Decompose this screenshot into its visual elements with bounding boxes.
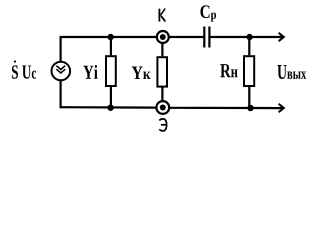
junction dot top of Rn [246,34,252,40]
arrowhead bottom output [279,104,284,112]
label Cp (capacitor) [200,5,216,21]
admittance Yi box [106,56,116,86]
current source SUc double chevron symbol [56,66,65,73]
wire top rail from capacitor to output arrow [210,36,283,38]
junction dot bottom of Rn [247,105,253,111]
resistor Rn box [244,56,254,86]
current source SUc circle [52,62,71,81]
wire Yk branch vertical [161,44,163,101]
arrowhead top output [279,33,284,41]
label node K [159,9,165,22]
label Yk [132,67,151,79]
label S-dot Uc (source) [14,60,16,62]
wire left branch vertical (source branch) [59,36,61,108]
capacitor Cp plates [204,27,209,48]
wire bottom rail from node E to output arrow [170,107,283,109]
junction dot top of Yi [107,34,113,40]
admittance Yk box [157,57,167,86]
label Yi [83,65,97,79]
node K (collector) terminal circle [157,31,169,43]
wire top rail left segment [60,36,156,38]
wire bottom rail left segment [60,106,156,109]
node E (emitter) terminal circle [156,101,169,114]
label Rn [220,64,237,77]
wire Rn branch vertical [248,37,250,108]
label Uvyh (output voltage) [277,65,306,79]
wire top rail from node K to capacitor [170,36,204,38]
junction dot bottom of Yi [107,105,113,111]
label node E [159,119,166,131]
wire Yi branch vertical [110,37,112,108]
